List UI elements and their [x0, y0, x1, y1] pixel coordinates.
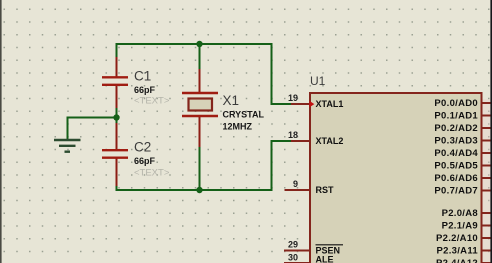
svg-text:66pF: 66pF [134, 85, 156, 95]
svg-text:P0.4/AD4: P0.4/AD4 [434, 148, 478, 159]
svg-text:P0.5/AD5: P0.5/AD5 [434, 161, 478, 172]
svg-text:P2.1/A9: P2.1/A9 [442, 221, 478, 232]
svg-text:29: 29 [288, 240, 298, 250]
svg-text:P0.1/AD1: P0.1/AD1 [434, 111, 478, 122]
svg-text:C1: C1 [134, 69, 151, 84]
svg-text:ALE: ALE [316, 255, 334, 263]
svg-text:9: 9 [293, 179, 298, 189]
svg-text:P0.0/AD0: P0.0/AD0 [434, 98, 478, 109]
svg-text:12MHZ: 12MHZ [223, 121, 253, 131]
svg-text:RST: RST [316, 185, 335, 195]
svg-text:XTAL2: XTAL2 [316, 136, 344, 146]
svg-text:XTAL1: XTAL1 [316, 99, 344, 109]
svg-text:U1: U1 [310, 74, 326, 88]
svg-text:P2.2/A10: P2.2/A10 [436, 233, 478, 244]
svg-text:P0.3/AD3: P0.3/AD3 [434, 136, 478, 147]
svg-text:<TEXT>: <TEXT> [134, 96, 170, 107]
svg-text:30: 30 [288, 253, 298, 263]
svg-text:X1: X1 [223, 93, 240, 108]
svg-text:P0.2/AD2: P0.2/AD2 [434, 123, 478, 134]
svg-text:P0.6/AD6: P0.6/AD6 [434, 173, 478, 184]
svg-text:66pF: 66pF [134, 156, 156, 166]
svg-text:P2.3/A11: P2.3/A11 [437, 246, 479, 257]
svg-text:CRYSTAL: CRYSTAL [223, 110, 265, 120]
svg-text:18: 18 [288, 130, 298, 140]
svg-text:P2.0/A8: P2.0/A8 [442, 208, 478, 219]
svg-text:<TEXT>: <TEXT> [134, 168, 170, 179]
svg-text:P2.4/A12: P2.4/A12 [436, 258, 478, 263]
svg-text:19: 19 [288, 93, 298, 103]
svg-text:C2: C2 [134, 139, 151, 154]
svg-text:P0.7/AD7: P0.7/AD7 [434, 186, 478, 197]
